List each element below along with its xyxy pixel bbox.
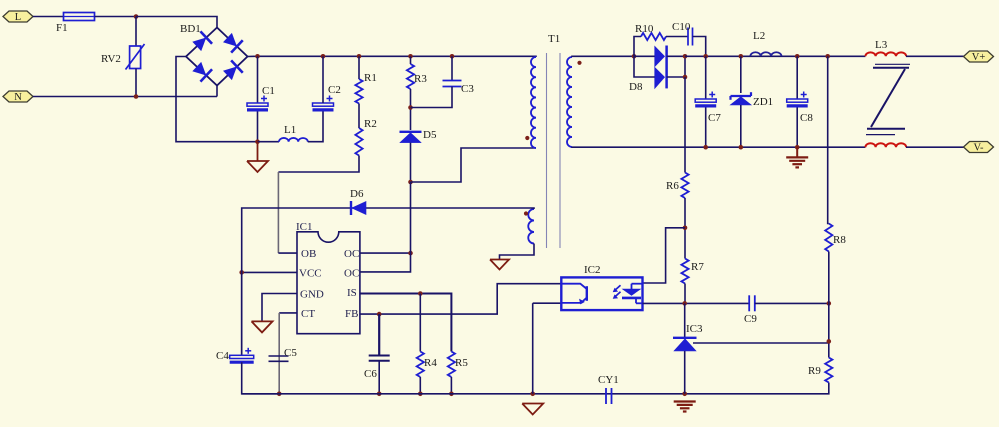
wire IC2 emitter wire [533,302,562,304]
wire GND pin [262,294,297,322]
wire secondary bottom [572,146,865,148]
capacitor C3 [443,81,462,87]
label IC3 [686,323,703,335]
wire L1 to C2 bottom [308,112,323,142]
svg-text:C1: C1 [262,85,275,97]
junction OC1 [408,251,413,256]
wire R3 bottom [410,89,412,130]
diode D5 [400,132,422,143]
label R1 [364,72,377,84]
pin OC2 [344,268,359,280]
svg-text:R6: R6 [666,180,679,192]
junction C1 top [255,54,260,59]
svg-text:L: L [15,12,21,23]
wire RV2 bottom [135,69,137,97]
resistor R6 [681,173,688,199]
junction C8 bottom [795,145,800,150]
junction D8 anode [632,54,637,59]
wire BD1 left vertex down [176,57,258,142]
svg-text:C4: C4 [216,350,229,362]
label T1 [548,33,560,45]
label D5 [423,129,437,141]
earth ground secondary [786,147,808,167]
resistor R2 [355,128,362,156]
resistor R9 [825,358,832,383]
ground bottom rail [522,404,543,415]
label C5 [284,347,297,359]
wire RV2 top [135,17,137,47]
pin VCC [299,268,322,280]
capacitor C1 [247,96,268,110]
svg-text:N: N [14,92,22,103]
resistor R8 [825,224,832,252]
wire R1 top [358,56,360,79]
wire C2 top [322,56,324,103]
svg-text:BD1: BD1 [180,23,201,35]
junction IC3 ref/R9 [827,339,832,344]
bridge diode top-right [222,31,243,52]
label CY1 [598,374,619,386]
svg-text:OB: OB [301,248,316,260]
svg-text:C7: C7 [708,112,721,124]
label C6 [364,368,377,380]
label C2 [328,84,341,96]
label D8 [629,81,643,93]
capacitor C4 [230,348,254,362]
zener ZD1 [730,92,751,105]
label C8 [800,112,813,124]
diode D6 [351,201,366,215]
resistor R7 [681,259,688,284]
junction C2 top [321,54,326,59]
svg-text:OC: OC [344,268,359,280]
wire CT gray column [278,313,280,394]
capacitor C9 [749,295,755,311]
label BD1 [180,23,201,35]
wire C1 top [257,56,259,103]
IC2 led [622,284,643,304]
wire CT pin stub [279,312,297,314]
zener IC3 [673,338,697,351]
resistor R4 [417,352,424,378]
label L3 [875,39,888,51]
transformer T1 secondary winding [567,57,572,147]
junction C6 bottom [377,392,382,397]
svg-text:F1: F1 [56,22,68,34]
svg-text:C8: C8 [800,112,813,124]
wire to V- [906,146,964,148]
bridge rectifier BD1 diamond [186,28,248,86]
junction C9/R8 [827,301,832,306]
junction ground rail [255,139,260,144]
IC2 phototransistor [561,284,587,304]
junction IS/R4 [418,291,423,296]
diode D8 [655,46,667,89]
junction N/RV2 [134,94,139,99]
wire R10 to C10 [666,36,688,38]
wire D5 bottom [410,143,412,182]
svg-text:C5: C5 [284,347,297,359]
wire C3 top [451,56,453,80]
wire D8 upper out [667,55,685,57]
wire N line [33,96,217,98]
svg-text:T1: T1 [548,33,560,45]
svg-text:V-: V- [973,142,984,153]
svg-text:V+: V+ [972,52,986,63]
wire R6 top [684,77,686,173]
svg-text:FB: FB [345,308,358,320]
bridge diode bottom-left [191,60,212,81]
label R5 [455,357,468,369]
svg-text:D8: D8 [629,81,643,93]
resistor R10 [641,33,666,40]
junction CY1 left node [530,392,535,397]
wire R3 top [410,56,412,64]
label ZD1 [753,96,773,108]
svg-text:D6: D6 [350,188,364,200]
wire R4 bottom [419,377,421,394]
label C4 [216,350,229,362]
label R7 [691,261,704,273]
svg-text:R3: R3 [414,73,427,85]
inductor L3 top coil [865,52,906,56]
label L1 [284,124,296,136]
wire IC3 ref [693,341,829,343]
wire IS pin [360,294,452,352]
label C10 [672,21,691,33]
wire C9 to R8 column [755,302,829,304]
svg-text:GND: GND [300,289,324,301]
transformer T1 aux winding [528,209,534,244]
wire IC3 column [684,303,686,338]
wire R2 bottom to OB column [278,156,359,173]
label C7 [708,112,721,124]
resistor R1 [355,79,362,104]
earth ground IC3 [674,402,696,412]
label RV2 [101,53,121,65]
wire OB pin stub [278,252,297,254]
choke core Z [866,64,910,134]
wire D5 node to primary bottom [411,148,537,182]
inductor L1 [279,138,308,142]
label L2 [753,30,765,42]
wire R4 top [419,294,421,352]
wire C1 bottom [257,112,259,142]
junction IC3 ground [682,392,687,397]
svg-text:CY1: CY1 [598,374,619,386]
wire R8 bottom [828,252,830,304]
label IC2 [584,264,601,276]
phase dot secondary [577,61,581,65]
wire bottom rail [242,383,829,394]
wire L3 to V+ [906,55,964,57]
wire C6 bottom [378,361,380,394]
capacitor C10 [688,28,693,46]
wire C8 bottom [796,108,798,148]
wire F1 to node A [95,16,137,18]
svg-text:R4: R4 [424,357,437,369]
wire node A to BD1 top [136,17,217,28]
ground primary [247,142,268,172]
pin OC1 [344,248,359,260]
wire C10 to rail [693,37,706,57]
pin GND [300,289,324,301]
svg-text:CT: CT [301,308,315,320]
resistor R5 [448,352,455,378]
wire IC2 cathode-side down [532,303,534,394]
wire primary top rail [258,55,537,58]
junction R1 top [357,54,362,59]
junction C8 top [795,54,800,59]
wire FB pin [360,284,561,314]
label D6 [350,188,364,200]
bridge diode top-left [191,31,212,52]
transformer core [547,53,561,248]
wire C8 top [796,56,798,99]
svg-text:IC2: IC2 [584,264,601,276]
ground IC1 [252,321,273,332]
junction R7/IC3 node [682,301,687,306]
svg-text:R2: R2 [364,118,377,130]
label R3 [414,73,427,85]
terminal L [3,11,33,23]
wire aux bottom [500,244,535,260]
junction ZD1 top [739,54,744,59]
op-amp IC1 box [297,232,360,334]
wire IC3 to ground rail [684,351,686,394]
svg-text:C9: C9 [744,313,757,325]
wire D8 upper rail [634,55,655,57]
wire VCC column / D6 wire [242,208,534,355]
svg-text:C10: C10 [672,21,691,33]
junction R5 bottom [449,392,454,397]
wire R8 column top [828,56,829,223]
wire D8 lower branch [634,56,655,77]
wire secondary top [572,55,634,58]
svg-text:C2: C2 [328,84,341,96]
capacitor C8 [787,92,808,106]
junction C7 bottom [703,145,708,150]
svg-text:L1: L1 [284,124,296,136]
svg-text:L2: L2 [753,30,765,42]
transformer T1 primary winding [531,57,536,148]
wire C7 bottom [705,108,707,148]
wire ground rail to L1 [258,141,280,143]
svg-text:D5: D5 [423,129,437,141]
label C1 [262,85,275,97]
junction D8 lower [683,75,688,80]
junction C10/C7 node [703,54,708,59]
junction C3 top [450,54,455,59]
wire OC2 pin [360,182,411,272]
svg-text:IC1: IC1 [296,221,313,233]
junction D8 cathode rail [683,54,688,59]
wire L to fuse F1 [33,16,64,18]
fuse F1 [64,13,95,21]
wire D8 anode up [634,37,641,57]
capacitor CY1 [606,388,612,404]
wire output rail [685,55,865,57]
inductor L2 [750,52,781,56]
wire C7 top [705,56,707,99]
wire R5 bottom [450,377,452,394]
svg-text:R8: R8 [833,234,846,246]
junction R6/R7 [683,226,688,231]
capacitor C7 [695,92,716,106]
pin IS [347,287,357,299]
wire R6 bottom [684,198,686,259]
svg-text:RV2: RV2 [101,53,121,65]
capacitor C6 [369,356,390,361]
wire R8-R9 link [828,303,830,357]
terminal V+ [964,51,994,63]
phase dot aux [524,211,528,215]
svg-text:R1: R1 [364,72,377,84]
label R8 [833,234,846,246]
wire R6R7 to IC2 anode [643,228,686,283]
junction fuse/RV2 node [134,14,139,19]
svg-text:R5: R5 [455,357,468,369]
terminal V- [964,142,994,154]
junction FB/C6 [377,312,382,317]
junction D5/OC [408,180,413,185]
capacitor C2 [313,96,334,110]
svg-text:L3: L3 [875,39,888,51]
wire C3 bottom [411,87,453,108]
label F1 [56,22,68,34]
label R9 [808,365,821,377]
junction R3/C3 [408,105,413,110]
label R2 [364,118,377,130]
capacitor C5 [269,356,289,361]
inductor L3 bottom coil [865,143,906,147]
optocoupler IC2 box [561,277,642,310]
resistor R3 [407,64,414,89]
label R6 [666,180,679,192]
junction ZD1 bottom [739,145,744,150]
junction R4 bottom [418,392,423,397]
wire C6 column [378,314,380,355]
pin CT [301,308,315,320]
svg-text:R7: R7 [691,261,704,273]
wire IC2 cathode to C9 line [643,302,749,304]
wire N to BD1 bottom [216,86,218,97]
svg-text:IS: IS [347,287,357,299]
svg-text:R10: R10 [635,23,654,35]
wire OC1 pin [360,252,411,254]
bridge diode bottom-right [222,60,243,81]
junction R8 top [825,54,830,59]
label C3 [461,83,474,95]
pin OB [301,248,316,260]
terminal N [3,91,33,103]
IC2 light arrows [613,285,620,298]
wire C4 top [241,272,243,355]
pin FB [345,308,358,320]
junction R3 top [408,54,413,59]
wire R1-R2 [358,104,360,129]
svg-text:VCC: VCC [299,268,322,280]
junction VCC [239,270,244,275]
phase dot primary [525,136,529,140]
svg-text:C6: C6 [364,368,377,380]
svg-text:OC: OC [344,248,359,260]
wire ZD1 top [740,56,742,93]
label IC1 [296,221,313,233]
wire R7 bottom [684,284,686,304]
svg-text:C3: C3 [461,83,474,95]
wire C4 bottom to rail [242,362,280,394]
varistor RV2 [126,44,145,70]
svg-text:ZD1: ZD1 [753,96,773,108]
svg-text:R9: R9 [808,365,821,377]
wire OB gray column [277,172,279,253]
wire BD1 right vertex to rail [248,55,258,57]
junction C5 bottom [277,392,282,397]
label R4 [424,357,437,369]
label C9 [744,313,757,325]
wire ZD1 bottom [740,105,742,147]
wire D8 lower out [667,56,685,77]
wire VCC pin [242,271,297,273]
label R10 [635,23,654,35]
svg-text:IC3: IC3 [686,323,703,335]
ground aux winding [490,260,509,270]
